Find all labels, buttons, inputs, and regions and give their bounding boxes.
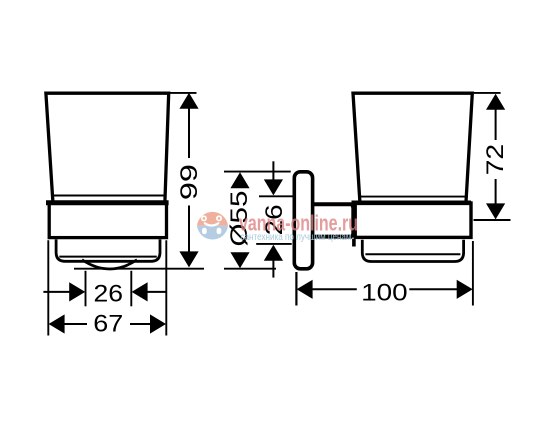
dimension 72 [474, 94, 511, 220]
cup top extension line (front) [169, 92, 197, 94]
dimension 26 (front) [43, 271, 166, 308]
watermark logo circle (frog in water) [197, 212, 228, 240]
svg-text:сантехника по лучшим ценам: сантехника по лучшим ценам [241, 232, 352, 243]
dimension 99 [176, 93, 203, 268]
holder ring (side) [362, 240, 463, 262]
stub below band left [352, 239, 356, 247]
arm top edge [313, 202, 353, 206]
glass bottom arc (front) [82, 260, 137, 269]
svg-text:100: 100 [361, 279, 408, 306]
wall plate (side) [294, 172, 312, 269]
arm end cap arc [352, 206, 356, 237]
svg-text:72: 72 [482, 144, 509, 176]
glass tumbler (front) [46, 93, 169, 202]
ring inner lip (front) [59, 256, 157, 258]
arm bottom edge [313, 235, 353, 239]
svg-text:67: 67 [93, 311, 123, 338]
dimension 67 [48, 240, 166, 337]
ring inner lip (side) [365, 253, 460, 255]
svg-text:99: 99 [176, 164, 203, 200]
baseline under front view [74, 268, 204, 270]
dimension 26 (side) [256, 161, 293, 277]
glass inner bottom line (side) [361, 196, 466, 198]
dimension diameter 55 [224, 172, 291, 269]
holder band (front) [49, 203, 166, 237]
holder band (side) [355, 203, 471, 237]
dimension 100 [296, 241, 473, 306]
glass inner bottom line (front) [52, 195, 165, 197]
cup top extension line (side) [474, 92, 501, 94]
band back edge line [351, 203, 354, 238]
svg-text:26: 26 [94, 281, 124, 308]
glass tumbler (side) [353, 93, 472, 202]
holder ring (front) [56, 239, 160, 261]
